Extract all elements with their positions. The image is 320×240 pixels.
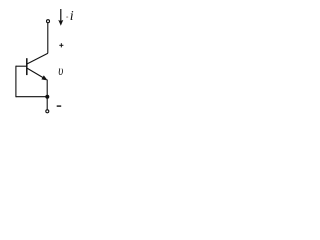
transistor Q1 collector lead xyxy=(27,53,48,64)
label plus xyxy=(59,43,63,47)
current arrow shaft xyxy=(60,9,62,23)
transistor Q1 base bar xyxy=(26,58,28,75)
wire base lead xyxy=(16,65,27,67)
label minus xyxy=(57,105,62,107)
current arrow head xyxy=(58,20,63,26)
svg-text:υ: υ xyxy=(58,63,63,79)
transistor Q1 emitter lead xyxy=(27,68,45,79)
terminal (collector, top) xyxy=(47,20,50,23)
terminal (emitter, bottom) xyxy=(46,110,49,113)
wire emitter vertical xyxy=(46,80,48,110)
svg-text:i: i xyxy=(70,9,74,24)
transistor Q1 emitter arrowhead xyxy=(42,76,48,81)
wire collector vertical xyxy=(47,23,49,53)
junction node dot xyxy=(45,95,49,99)
wire left vertical xyxy=(15,66,17,98)
label i entry stroke xyxy=(66,16,68,17)
wire bottom horizontal xyxy=(16,96,47,98)
